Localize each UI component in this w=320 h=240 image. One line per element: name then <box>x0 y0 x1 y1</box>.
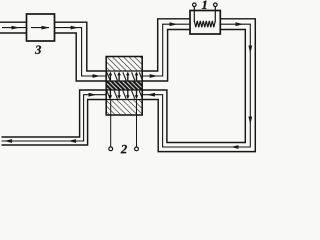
wire: inlet duct centerline with flow arrow <box>2 26 27 30</box>
heater terminal right <box>214 3 218 7</box>
wire: upper channel right stub and riser to top duct <box>142 19 190 81</box>
wire: exhaust centerline with flow arrows <box>2 93 107 143</box>
wire: inlet duct upper-left boundary lines <box>0 22 27 33</box>
thermocouple legs upper band (diagonal strokes) <box>107 72 142 80</box>
wire: duct from box 3 down to cold channel (outer line) <box>55 22 107 81</box>
thermocouple legs lower band (diagonal strokes) <box>107 91 142 99</box>
electric heater box U1 <box>190 11 220 35</box>
wire: centerline upper-right with flow arrows <box>142 22 190 78</box>
label 1 <box>202 1 207 9</box>
fan/filter box 3 <box>27 14 55 41</box>
heater lead left <box>193 7 195 22</box>
heater lead right <box>214 7 216 22</box>
heater terminal left <box>193 3 197 7</box>
wire: battery electrode lead right <box>136 100 138 147</box>
wire: right loop centerline with flow arrows <box>142 22 252 149</box>
heater coil element <box>194 21 215 27</box>
flow arrow inside box 3 <box>31 26 50 30</box>
wire: battery electrode lead left <box>110 100 112 147</box>
channel boundary lines through block <box>106 71 142 100</box>
label 2 <box>121 145 127 153</box>
heat-flow arrows up (cold junctions row) <box>109 72 139 81</box>
label 3 <box>35 46 41 54</box>
battery terminal left <box>109 147 113 151</box>
wire: duct centerline box3-to-block with flow arrows <box>55 26 107 78</box>
thermoelectric battery block 2: hatched body <box>106 57 142 116</box>
battery terminal right <box>135 147 139 151</box>
wire: right loop outer boundary (top right side bottom) <box>142 19 255 152</box>
wire: lower channel left stub, down riser, exhaust duct boundary <box>2 90 107 145</box>
heat-flow arrows down (hot junctions row) <box>109 90 139 99</box>
